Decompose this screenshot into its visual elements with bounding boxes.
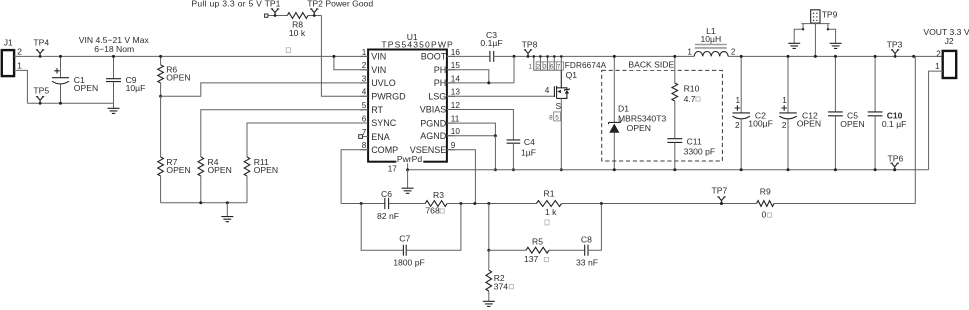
wire VOUT rail — [728, 55, 943, 57]
wire J2 pin 1 to ground rail — [929, 71, 943, 170]
TP9 center pin to VOUT rail — [814, 23, 816, 56]
svg-text:PH: PH — [434, 78, 447, 88]
capacitor C10 0.1uF — [874, 56, 876, 112]
node ground stub junction — [226, 201, 229, 204]
resistor R6 OPEN — [160, 56, 162, 64]
resistor R5 137 ohm — [526, 247, 549, 253]
svg-text:OPEN: OPEN — [166, 73, 190, 83]
node C5 top junction — [834, 55, 837, 58]
wire feedback vertical to VOUT rail — [914, 56, 916, 203]
resistor R1 1k — [536, 201, 561, 207]
capacitor C9 10uF — [113, 56, 115, 78]
wire R3 to feedback node — [447, 203, 536, 205]
U1 PowerPad pin 17 — [407, 162, 409, 170]
wire Q1 source to ground rail — [560, 98, 562, 169]
node C9 top junction — [112, 55, 115, 58]
svg-text:BACK SIDE: BACK SIDE — [628, 60, 674, 70]
svg-text:OPEN: OPEN — [797, 119, 821, 129]
svg-text:16: 16 — [451, 48, 461, 57]
svg-text:R9: R9 — [760, 186, 771, 196]
node R6 bottom junction — [159, 95, 162, 98]
wire R6 junction down to R7 — [160, 96, 162, 157]
node TP9 rail junction — [814, 55, 817, 58]
svg-text:2: 2 — [362, 61, 367, 70]
svg-text:Q1: Q1 — [566, 70, 578, 80]
connector J1 — [2, 50, 14, 76]
svg-text:C8: C8 — [581, 234, 592, 244]
Q1 drain pin boxes — [536, 62, 563, 70]
svg-text:COMP: COMP — [371, 145, 398, 155]
node R1 R5 R2 junction — [487, 202, 490, 205]
wire J1 pin 1 down to bottom input wire — [14, 70, 27, 103]
wire VBIAS pin 12 to C4 — [447, 110, 514, 140]
svg-text:OPEN: OPEN — [627, 123, 651, 133]
wire R6 bottom to UVLO pin 3 — [161, 83, 369, 96]
svg-text:100µF: 100µF — [748, 119, 773, 129]
transistor Q1 FDR6674A drain pin stubs — [533, 56, 535, 70]
svg-text:17: 17 — [388, 165, 398, 174]
L1 core bars — [695, 45, 727, 48]
svg-text:OPEN: OPEN — [74, 83, 98, 93]
node C12 top junction — [787, 55, 790, 58]
wire comp network horizontal — [341, 203, 385, 205]
svg-text:8: 8 — [362, 141, 367, 150]
svg-text:TP4: TP4 — [33, 38, 49, 48]
svg-text:4: 4 — [545, 86, 550, 95]
capacitor C1 polarized OPEN — [60, 56, 62, 77]
svg-text:7: 7 — [557, 63, 561, 70]
ground below pin 17 — [407, 170, 409, 188]
svg-text:5: 5 — [362, 101, 367, 110]
svg-text:374: 374 — [494, 281, 509, 291]
svg-text:2: 2 — [735, 121, 740, 130]
svg-text:10µH: 10µH — [700, 34, 721, 44]
test point TP5 — [36, 97, 44, 104]
ground below R7 R4 R11 wire — [226, 203, 228, 217]
svg-text:TP2 Power Good: TP2 Power Good — [307, 0, 373, 9]
svg-text:6−18 Nom: 6−18 Nom — [94, 44, 134, 54]
node Q1 source junction — [560, 168, 563, 171]
wire R9 to VOUT sense — [774, 203, 915, 205]
node C10 top junction — [874, 55, 877, 58]
op-amp U1 TPS54350PWP IC body — [368, 50, 447, 162]
svg-text:82 nF: 82 nF — [377, 211, 399, 221]
svg-text:2: 2 — [17, 47, 22, 57]
wire PGND pin 11 drop — [447, 123, 496, 136]
U1 left pin 3 UVLO — [360, 82, 368, 84]
svg-text:OPEN: OPEN — [254, 165, 278, 175]
svg-text:0: 0 — [762, 209, 767, 219]
svg-text:TP8: TP8 — [522, 39, 538, 49]
svg-text:1µF: 1µF — [521, 148, 536, 158]
svg-text:R5: R5 — [532, 236, 543, 246]
svg-text:OPEN: OPEN — [840, 119, 864, 129]
U1 left pin 8 COMP — [360, 149, 368, 151]
wire branch to R5 — [489, 249, 526, 251]
port square at TP1 wire end — [265, 14, 268, 17]
test point TP4 — [36, 50, 44, 57]
node C7 left junction — [360, 202, 363, 205]
capacitor C6 82nF — [385, 198, 389, 209]
node pin 17 junction — [406, 168, 409, 171]
svg-text:1: 1 — [735, 96, 740, 105]
svg-text:4: 4 — [362, 88, 367, 97]
wire TP2 to PWRGD pin 4 — [321, 16, 368, 97]
wire PH pin 14 — [447, 82, 514, 84]
svg-text:PWRGD: PWRGD — [371, 92, 406, 102]
svg-text:OPEN: OPEN — [208, 165, 232, 175]
wire RT pin 5 to R4 — [201, 110, 368, 157]
svg-text:C6: C6 — [381, 189, 392, 199]
svg-text:3: 3 — [543, 63, 547, 70]
capacitor C4 1uF — [507, 140, 521, 143]
svg-text:UVLO: UVLO — [371, 78, 396, 88]
resistor R11 OPEN — [244, 157, 250, 176]
wire R1 to TP7 R9 feedback run — [562, 203, 757, 205]
svg-text:13: 13 — [451, 88, 461, 97]
node C10 bottom junction — [874, 168, 877, 171]
svg-text:TP9: TP9 — [822, 10, 838, 20]
resistor R4 OPEN — [198, 157, 204, 176]
svg-text:VIN: VIN — [371, 52, 386, 62]
U1 right pin 11 PGND — [447, 122, 455, 124]
svg-text:11: 11 — [451, 115, 460, 124]
svg-text:12: 12 — [451, 101, 461, 110]
U1 right pin 13 LSG — [447, 95, 455, 97]
svg-text:1: 1 — [687, 48, 692, 57]
svg-text:J1: J1 — [4, 38, 13, 48]
wire AGND down to ground rail — [494, 136, 496, 170]
resistor R10 4.7 ohm — [674, 56, 676, 83]
svg-text:OPEN: OPEN — [166, 165, 190, 175]
node R5 branch junction — [487, 249, 490, 252]
wire ground rail — [408, 169, 929, 171]
test point TP6 — [891, 163, 899, 170]
wire C6 to R3 — [389, 203, 426, 205]
node AGND PGND junction — [494, 134, 497, 137]
node TP6 junction — [893, 168, 896, 171]
svg-text:J2: J2 — [945, 36, 954, 46]
node TP7 junction — [720, 202, 723, 205]
wire R2 R5 branch down — [488, 204, 490, 251]
svg-text:3300 pF: 3300 pF — [684, 146, 716, 156]
svg-text:TP1: TP1 — [265, 0, 281, 9]
svg-text:R1: R1 — [544, 188, 555, 198]
svg-text:9: 9 — [451, 141, 456, 150]
svg-text:6: 6 — [550, 63, 554, 70]
resistor R2 374 ohm — [488, 250, 490, 270]
node PH pins junction — [487, 81, 490, 84]
svg-text:0.1 µF: 0.1 µF — [882, 119, 907, 129]
svg-text:MBR5340T3: MBR5340T3 — [618, 113, 666, 123]
svg-text:PGND: PGND — [420, 118, 447, 128]
svg-text:0.1µF: 0.1µF — [480, 38, 502, 48]
U1 right pin 14 PH — [447, 82, 455, 84]
svg-text:7: 7 — [362, 128, 367, 137]
node D1 bottom junction — [613, 168, 616, 171]
capacitor C7 1800pF loop — [361, 204, 403, 251]
svg-text:R3: R3 — [433, 190, 444, 200]
capacitor C11 3300pF — [667, 139, 682, 143]
capacitor C12 OPEN polarized — [787, 56, 789, 113]
U1 right pin 15 PH — [447, 69, 455, 71]
svg-text:C11: C11 — [687, 136, 702, 146]
capacitor C2 100uF polarized — [740, 56, 742, 113]
svg-text:1800 pF: 1800 pF — [393, 257, 425, 267]
wire LSG pin 13 to Q1 gate — [447, 95, 555, 97]
capacitor C3 0.1uF — [490, 51, 494, 62]
svg-text:ENA: ENA — [371, 132, 390, 142]
stray empty box glyph — [286, 48, 290, 53]
node C5 bottom junction — [834, 168, 837, 171]
test point TP7 — [717, 197, 725, 204]
svg-text:10 k: 10 k — [289, 28, 306, 38]
svg-text:1 k: 1 k — [545, 207, 557, 217]
U1 left pin 4 PWRGD — [360, 95, 368, 97]
ground left of TP9 — [788, 43, 800, 48]
capacitor C5 OPEN — [834, 56, 836, 112]
svg-text:TPS54350PWP: TPS54350PWP — [381, 39, 454, 49]
svg-text:2: 2 — [936, 49, 941, 58]
svg-text:D1: D1 — [618, 104, 629, 114]
svg-text:VOUT 3.3 V: VOUT 3.3 V — [923, 27, 969, 37]
wire C3 right down to PH pins — [513, 56, 515, 83]
test point TP2 — [310, 9, 318, 16]
wire VIN rail from J1 to U1 pin 1 — [14, 55, 368, 57]
resistor R3 768 ohm — [425, 201, 447, 207]
node C7 right junction — [459, 202, 462, 205]
node C11 ground junction — [673, 168, 676, 171]
U1 right pin 10 AGND — [447, 135, 455, 137]
svg-text:1: 1 — [528, 63, 532, 70]
resistor R9 0 ohm — [757, 201, 774, 207]
node C12 bottom junction — [787, 168, 790, 171]
node AGND rail junction — [494, 168, 497, 171]
node R10 top junction — [673, 55, 676, 58]
U1 left pin 1 VIN — [360, 55, 368, 57]
wire PH pin 15 drop — [447, 70, 489, 83]
test point TP1 — [271, 9, 279, 16]
svg-text:1: 1 — [17, 61, 22, 71]
svg-text:5: 5 — [555, 114, 559, 121]
svg-text:15: 15 — [451, 61, 461, 70]
node C1 bottom junction — [59, 102, 62, 105]
svg-text:1: 1 — [782, 96, 787, 105]
svg-text:SYNC: SYNC — [371, 118, 397, 128]
U1 right pin 9 VSENSE — [447, 149, 455, 151]
svg-text:33 nF: 33 nF — [576, 258, 598, 268]
svg-text:R10: R10 — [684, 84, 700, 94]
svg-text:C4: C4 — [524, 137, 535, 147]
wire BOOT pin 16 to C3 — [447, 55, 490, 57]
svg-text:137: 137 — [524, 254, 539, 264]
svg-text:14: 14 — [451, 74, 461, 83]
svg-text:768: 768 — [425, 205, 440, 215]
node D1 top junction — [613, 55, 616, 58]
TP9 collar and side wires — [794, 24, 835, 44]
svg-text:PwrPd: PwrPd — [397, 154, 423, 164]
U1 left pin 5 RT — [360, 109, 368, 111]
ground right of TP9 — [830, 43, 842, 48]
svg-text:LSG: LSG — [428, 92, 446, 102]
test point TP3 — [891, 50, 899, 57]
svg-text:1: 1 — [362, 48, 367, 57]
wire bottom of R7 R4 R11 — [161, 202, 247, 204]
svg-text:TP5: TP5 — [33, 86, 49, 96]
svg-text:2: 2 — [536, 63, 540, 70]
node R6 top junction — [159, 55, 162, 58]
svg-text:4.7: 4.7 — [684, 94, 696, 104]
svg-text:10: 10 — [451, 127, 461, 136]
node R5 C8 right junction — [600, 202, 603, 205]
wire TP1-R8-TP2 pull-up net — [268, 15, 287, 17]
resistor R7 OPEN — [158, 157, 164, 176]
U1 left pin 7 ENA — [362, 136, 368, 138]
svg-text:TP7: TP7 — [712, 185, 728, 195]
node C2 bottom junction — [740, 168, 743, 171]
wire R5 to C8 — [549, 249, 585, 251]
svg-text:2: 2 — [731, 47, 736, 56]
U1 right pin 12 VBIAS — [447, 109, 455, 111]
svg-text:AGND: AGND — [420, 131, 447, 141]
node R4 bottom junction — [199, 201, 202, 204]
U1 left pin 2 VIN — [360, 69, 368, 71]
ground below C9 — [113, 103, 115, 108]
node feedback rail junction — [912, 55, 915, 58]
svg-text:6: 6 — [362, 114, 367, 123]
diode D1 MBR5340T3 OPEN — [613, 56, 615, 122]
svg-text:8: 8 — [549, 114, 553, 121]
wire VIN rail branch to pin 2 — [334, 56, 368, 69]
svg-text:RT: RT — [371, 105, 383, 115]
wire SYNC pin 6 to R11 — [247, 123, 368, 157]
wire VSENSE pin 9 down to feedback — [447, 150, 476, 204]
svg-text:10µF: 10µF — [126, 83, 146, 93]
svg-text:S: S — [556, 102, 562, 111]
header TP9 3-pin symbol — [811, 10, 820, 23]
resistor R8 — [287, 13, 308, 19]
svg-text:TP6: TP6 — [888, 153, 904, 163]
transistor Q1 MOSFET symbol — [554, 70, 561, 98]
node pin2 branch junction — [332, 55, 335, 58]
node C2 top junction — [740, 55, 743, 58]
svg-text:C7: C7 — [399, 234, 410, 244]
capacitor C8 33nF — [585, 245, 588, 256]
svg-text:Pull up 3.3 or 5 V: Pull up 3.3 or 5 V — [191, 0, 262, 9]
test point TP8 — [524, 50, 532, 57]
node VSENSE junction — [473, 202, 476, 205]
wire C8 up to feedback — [588, 204, 601, 251]
svg-text:FDR6674A: FDR6674A — [565, 61, 607, 70]
svg-text:VIN: VIN — [371, 65, 386, 75]
svg-text:BOOT: BOOT — [421, 52, 447, 62]
svg-text:3: 3 — [362, 74, 367, 83]
svg-text:TP3: TP3 — [887, 40, 903, 50]
svg-text:1: 1 — [935, 62, 940, 71]
wire COMP pin 8 down to comp network — [341, 150, 368, 204]
U1 right pin 16 BOOT — [447, 55, 455, 57]
wire bottom input return — [27, 102, 113, 104]
wire AGND pin 10 — [447, 135, 496, 137]
svg-text:2: 2 — [782, 121, 787, 130]
wire Q1 drain pin bus — [534, 69, 562, 71]
inductor L1 10uH — [694, 52, 728, 57]
dashed box BACK SIDE — [602, 70, 723, 161]
Q1 body diode — [561, 88, 567, 99]
U1 left pin 6 SYNC — [360, 122, 368, 124]
node C4 ground junction — [512, 168, 515, 171]
ground below R2 — [488, 291, 490, 301]
wire C3 to switch node rail — [494, 55, 695, 57]
svg-text:VBIAS: VBIAS — [420, 105, 447, 115]
node C3 PH junction — [513, 55, 516, 58]
connector J2 — [943, 51, 957, 78]
Q1 source pin numbers 8 5 — [554, 112, 561, 121]
node C1 top junction — [59, 55, 62, 58]
svg-text:PH: PH — [434, 65, 447, 75]
